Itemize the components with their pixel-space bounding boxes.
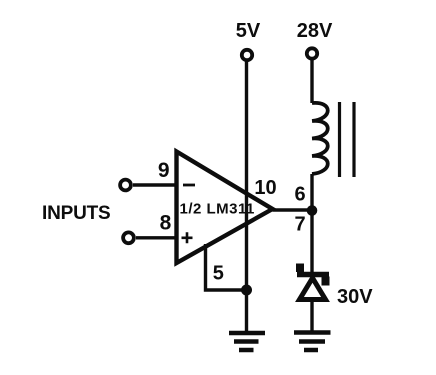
inductor L1 relay coil (312, 103, 328, 174)
input terminal circle pin9 (120, 180, 131, 191)
svg-text:30V: 30V (337, 286, 373, 308)
wire coil to node (310, 174, 313, 210)
svg-text:INPUTS: INPUTS (42, 203, 110, 224)
wire 28V vertical (310, 59, 313, 103)
terminal circle 5V (242, 50, 252, 60)
core line 1 (338, 102, 341, 177)
svg-text:28V: 28V (297, 20, 333, 42)
terminal circle 28V (307, 48, 317, 58)
svg-text:5V: 5V (236, 20, 261, 42)
svg-text:6: 6 (294, 184, 305, 206)
svg-text:9: 9 (158, 159, 170, 182)
input terminal circle pin8 (123, 232, 134, 243)
wire zener to ground 2 (310, 301, 313, 331)
zener left tab (296, 264, 304, 273)
junction dot node 6/7 (307, 205, 318, 216)
svg-text:10: 10 (254, 177, 276, 199)
wire input pin9 (133, 183, 177, 186)
wire pin5 (206, 244, 247, 290)
wire output pin10 to node (273, 208, 313, 211)
svg-text:1/2 LM311: 1/2 LM311 (180, 201, 255, 218)
svg-text:8: 8 (160, 212, 172, 235)
core line 2 (352, 102, 355, 177)
op-amp minus sign (183, 184, 195, 187)
wire 5V vertical (245, 61, 248, 291)
zener D1 cathode bar (297, 272, 329, 278)
wire input pin8 (136, 236, 177, 239)
junction dot pin5/5V (241, 285, 252, 296)
ground 2 (294, 333, 331, 351)
op-amp U1 triangle (177, 152, 273, 264)
op-amp plus sign (182, 232, 193, 243)
zener D1 triangle (300, 278, 326, 300)
svg-text:5: 5 (213, 263, 224, 285)
zener right tab (322, 277, 330, 286)
ground 1 (229, 333, 265, 350)
wire node to zener (310, 210, 313, 272)
svg-text:7: 7 (294, 214, 305, 236)
wire to ground 1 (245, 290, 248, 332)
